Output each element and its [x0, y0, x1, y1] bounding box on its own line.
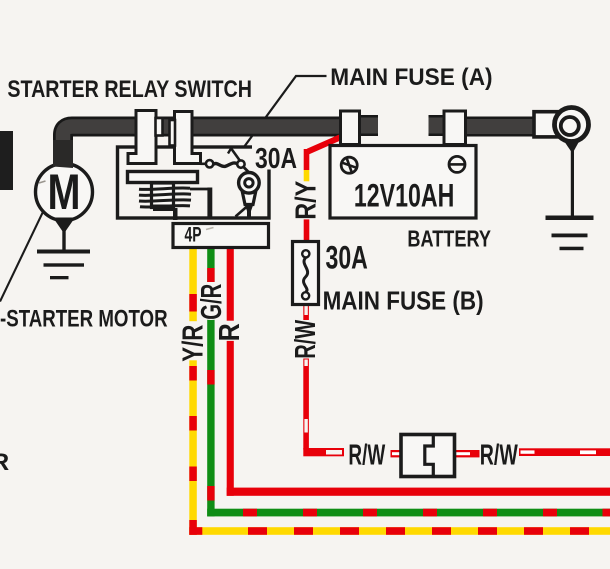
svg-text:G/R: G/R	[196, 284, 228, 320]
svg-text:4P: 4P	[185, 223, 202, 246]
svg-text:Y/R: Y/R	[177, 325, 209, 362]
svg-text:MAIN FUSE (B): MAIN FUSE (B)	[323, 286, 484, 316]
svg-text:R/W: R/W	[480, 440, 518, 472]
svg-text:R: R	[214, 323, 246, 341]
svg-text:R/W: R/W	[290, 320, 322, 359]
svg-text:MAIN FUSE (A): MAIN FUSE (A)	[330, 64, 492, 91]
svg-text:30A: 30A	[326, 240, 368, 276]
svg-text:M: M	[48, 164, 81, 220]
svg-text:30A: 30A	[255, 142, 297, 174]
svg-text:STARTER RELAY SWITCH: STARTER RELAY SWITCH	[7, 76, 252, 103]
svg-text:R: R	[0, 449, 10, 476]
svg-text:BATTERY: BATTERY	[407, 225, 491, 251]
svg-text:R/Y: R/Y	[290, 181, 322, 220]
svg-text:-STARTER MOTOR: -STARTER MOTOR	[0, 305, 168, 332]
svg-text:R/W: R/W	[348, 440, 385, 472]
svg-text:12V10AH: 12V10AH	[354, 178, 454, 214]
